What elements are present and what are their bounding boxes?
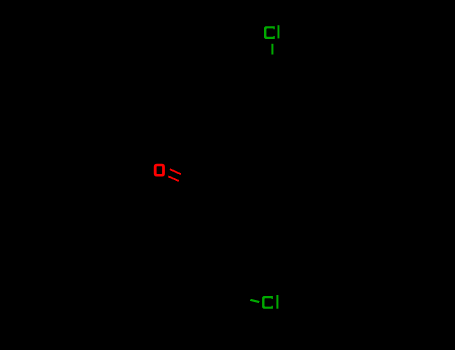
wire: green half-bond from ring carbon to bottom Cl <box>250 300 259 302</box>
atom label Cl (top chlorine): letter l <box>278 25 280 38</box>
wire: red half of C=O double bond, lower line <box>168 176 179 181</box>
wire: green half-bond from top Cl down to ring carbon <box>271 44 273 55</box>
atom label Cl (bottom chlorine): letter C <box>262 296 273 309</box>
wire: red half of C=O double bond, upper line <box>170 169 181 174</box>
atom label Cl (top chlorine): letter C <box>264 26 275 39</box>
atom label Cl (bottom chlorine): letter l <box>276 295 278 309</box>
atom label O (ketone oxygen) <box>154 164 165 177</box>
